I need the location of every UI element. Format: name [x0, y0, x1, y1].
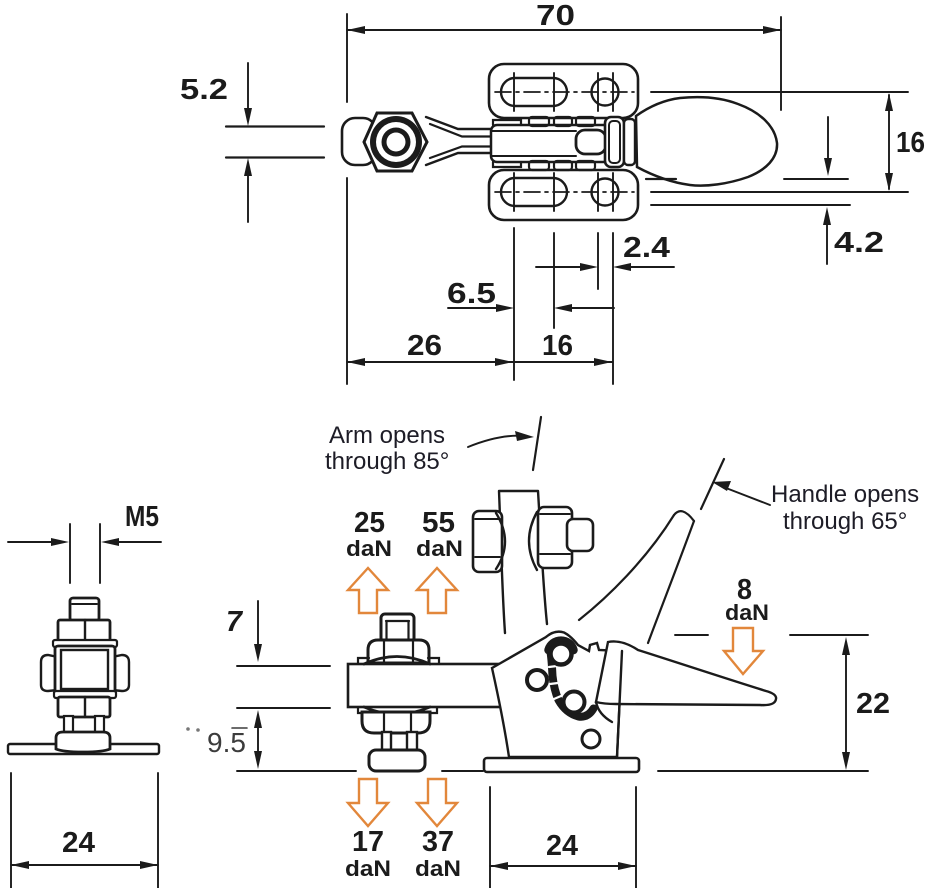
dim 7 arrow: [257, 601, 259, 654]
body square outer: [55, 646, 115, 694]
short dash under teardrop: [646, 178, 676, 180]
nut outer dark band: [370, 116, 422, 168]
dim 5.2 upper arrow: [247, 63, 249, 116]
washer arc bottom: [364, 707, 430, 714]
arm washer right: [529, 512, 537, 570]
round hole bottom wing: [592, 179, 619, 206]
svg-text:17: 17: [352, 826, 384, 858]
dim 16 vertical line: [888, 95, 890, 189]
dim 22 line: [845, 643, 847, 764]
65 deg tick line: [701, 459, 724, 509]
body square inner: [61, 650, 108, 689]
reference line arm bottom: [237, 707, 330, 709]
dim M5 arrows: [8, 541, 62, 543]
svg-text:daN: daN: [345, 856, 391, 881]
handle clevis bar: [624, 119, 635, 165]
dim 24 line: [490, 865, 636, 867]
linkage S band: [551, 652, 594, 717]
spindle hex nut: [364, 113, 427, 171]
arm bar closed: [348, 664, 560, 707]
extension stubs below body: [513, 228, 515, 380]
arm washer left: [496, 513, 505, 569]
arm nut right hex: [538, 507, 572, 568]
svg-text:through 85°: through 85°: [325, 448, 449, 475]
dim M5 extension lines: [70, 524, 100, 583]
dim 70 extension line left: [346, 14, 348, 384]
round hole top wing: [592, 79, 619, 106]
right bracket: [605, 117, 624, 167]
svg-text:24: 24: [62, 827, 95, 859]
svg-text:22: 22: [856, 688, 890, 720]
svg-text:M5: M5: [125, 501, 159, 533]
body right edge over handle: [617, 651, 622, 757]
nut center: [387, 133, 406, 152]
orange arrow 8 daN down: [724, 628, 763, 674]
hole crosshair verticals top wing: [514, 73, 613, 111]
foot pad: [369, 750, 425, 771]
pin c1: [551, 644, 572, 665]
dash left of 22 top: [675, 634, 708, 636]
reference line base bottom: [237, 770, 356, 772]
slot hole bottom wing: [501, 178, 567, 206]
dim 16b line: [514, 361, 612, 363]
spindle hex nut bottom: [362, 712, 430, 733]
washer line: [53, 640, 117, 647]
central bar: [491, 125, 612, 162]
85 deg leader arc: [468, 436, 524, 447]
bottom extension line: [658, 770, 868, 772]
dash right 22 top: [790, 634, 868, 636]
fork inner slot lines: [430, 124, 580, 158]
arrow to line y179: [827, 117, 829, 170]
dots before 9.5: [186, 727, 190, 731]
65 deg leader: [726, 488, 770, 505]
pin c4: [582, 730, 600, 748]
orange arrow 17 daN down: [348, 779, 388, 826]
svg-text:37: 37: [422, 826, 454, 858]
dim 4.2 arrow: [826, 213, 828, 264]
svg-text:Handle opens: Handle opens: [771, 481, 919, 508]
dim 5.2 lower arrow: [247, 168, 249, 222]
85 deg tick line: [533, 417, 541, 470]
open handle blade right edge: [648, 521, 694, 643]
centerline bottom holes: [495, 191, 634, 193]
svg-text:daN: daN: [346, 536, 392, 561]
bolt tip right: [567, 519, 593, 551]
left ear: [41, 655, 58, 691]
foot pad: [56, 732, 110, 752]
dim 9.5 arrows: [257, 717, 259, 762]
fork outer edges: [426, 117, 492, 165]
top wing plate: [489, 64, 638, 118]
short line y179: [784, 178, 848, 180]
hex nut bottom: [58, 697, 110, 717]
svg-text:70: 70: [536, 0, 575, 32]
nut white ring: [376, 122, 416, 162]
washer tabs top: [358, 658, 439, 663]
handle teardrop (top view): [636, 97, 777, 186]
svg-text:2.4: 2.4: [623, 232, 670, 264]
spindle hex nut top: [368, 640, 429, 663]
dim 24 extension lines: [11, 773, 158, 888]
threaded stem rods: [382, 732, 391, 751]
dim 5.2 reference lines: [226, 127, 324, 158]
spindle washer: [342, 118, 376, 165]
handle closed: [596, 641, 776, 705]
blob cap over pin 1: [549, 641, 574, 650]
svg-text:through 65°: through 65°: [783, 508, 907, 535]
svg-text:26: 26: [407, 330, 442, 362]
washer tabs bottom: [358, 708, 437, 713]
dim 70 dimension line: [347, 29, 781, 31]
pivot body: [492, 632, 622, 757]
right ear: [112, 655, 129, 691]
base plate: [8, 744, 159, 754]
pin c2: [527, 670, 547, 690]
hex nut top: [58, 620, 110, 641]
svg-text:daN: daN: [416, 536, 463, 561]
bottom wing plate: [489, 170, 638, 220]
bottom tab row: [529, 161, 549, 170]
orange arrow 37 daN down: [417, 779, 457, 826]
svg-text:Arm opens: Arm opens: [329, 422, 445, 449]
washer arc top: [364, 657, 430, 665]
washer line 2: [54, 691, 116, 698]
threaded stem rods: [64, 716, 73, 734]
extension line y205 right: [651, 204, 850, 206]
handle front lower edge: [596, 702, 612, 722]
dim 6.5 arrows: [448, 307, 508, 309]
open handle blade tip: [674, 511, 694, 521]
svg-text:55: 55: [422, 507, 455, 539]
reference dash right of foot: [442, 770, 483, 772]
reference line arm top: [237, 665, 330, 667]
base plate: [484, 758, 639, 772]
top tab row: [529, 117, 549, 126]
dim 24 line: [11, 864, 158, 866]
band white dashes: [549, 666, 561, 699]
open handle blade left edge: [579, 515, 674, 620]
hole crosshair verticals bottom wing: [514, 173, 613, 211]
svg-text:7: 7: [226, 606, 244, 638]
slot hole top wing: [501, 78, 567, 106]
dim 26 line: [347, 361, 513, 363]
inner slot lines within bar: [491, 131, 576, 156]
svg-text:16: 16: [542, 330, 573, 362]
dim 70 extension line right: [780, 17, 782, 110]
svg-text:16: 16: [896, 127, 925, 159]
extension line y192 right: [651, 191, 908, 193]
spindle square head: [381, 614, 414, 642]
pin c3: [564, 692, 585, 713]
svg-text:6.5: 6.5: [447, 278, 496, 310]
centerline top holes: [495, 91, 634, 93]
dim 2.4 arrows: [536, 266, 592, 268]
svg-text:daN: daN: [415, 856, 461, 881]
orange arrow 25 daN up: [348, 568, 388, 613]
nut dark ring: [382, 128, 411, 157]
svg-text:4.2: 4.2: [834, 227, 884, 259]
dim 24 extension lines: [490, 787, 636, 888]
svg-text:5.2: 5.2: [180, 74, 228, 106]
slot end cap: [576, 130, 606, 154]
arm nut left hex: [473, 511, 502, 572]
svg-text:24: 24: [546, 830, 578, 862]
bolt tip: [70, 598, 99, 621]
extension line y92 right: [651, 91, 908, 93]
orange arrow 55 daN up: [417, 568, 457, 613]
svg-text:9.5: 9.5: [207, 727, 246, 758]
svg-text:daN: daN: [725, 600, 769, 625]
left tabs: [493, 120, 521, 167]
svg-text:25: 25: [354, 507, 385, 539]
open arm bar: [499, 491, 547, 633]
